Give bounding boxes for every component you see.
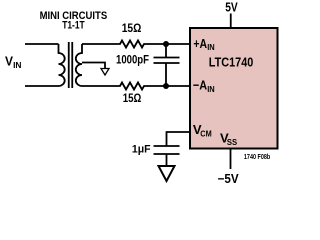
svg-text:5V: 5V [225,0,238,14]
svg-text:−5V: −5V [218,172,240,186]
svg-text:15Ω: 15Ω [123,93,142,105]
svg-text:−A: −A [193,78,208,93]
svg-text:+A: +A [193,36,207,51]
svg-text:SS: SS [227,137,237,147]
svg-text:IN: IN [13,61,22,70]
svg-text:1000pF: 1000pF [116,55,149,67]
svg-text:CM: CM [200,128,211,138]
svg-text:1μF: 1μF [132,144,151,156]
svg-text:LTC1740: LTC1740 [209,54,254,69]
svg-text:IN: IN [207,85,215,94]
svg-text:1740 F08b: 1740 F08b [244,152,271,161]
svg-text:15Ω: 15Ω [122,23,142,35]
svg-text:T1-1T: T1-1T [62,20,85,32]
svg-text:IN: IN [207,43,215,52]
